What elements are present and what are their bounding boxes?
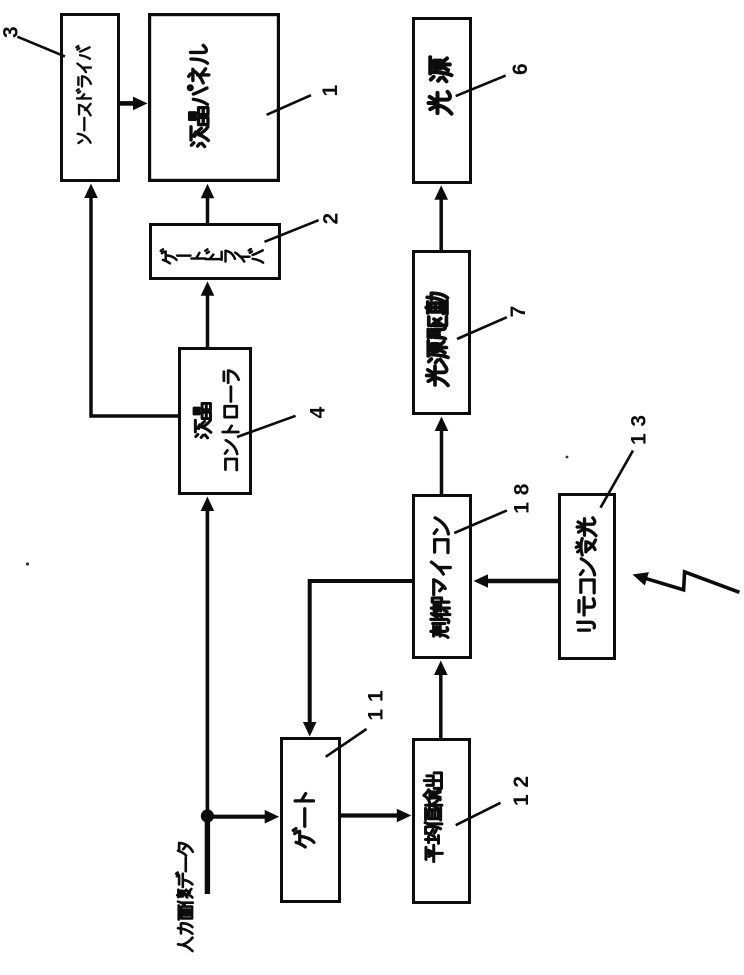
leader line 13 (601, 451, 634, 508)
junction dot (201, 809, 214, 822)
svg-text:1: 1 (511, 502, 534, 514)
text: average detection (424, 773, 442, 862)
leader line 7 (457, 317, 507, 339)
box 12: average value detection (414, 740, 470, 903)
svg-text:8: 8 (511, 483, 534, 495)
leader line 11 (326, 729, 367, 757)
text: light source (429, 57, 452, 113)
box 18: control microcomputer (414, 496, 471, 658)
box 4: LCD controller (180, 349, 251, 494)
leader line 4 (237, 416, 296, 437)
speck artifacts (26, 562, 29, 565)
text: remote receiver (576, 518, 596, 630)
box 13: remote control receiver (560, 495, 615, 659)
box 1: LCD panel (150, 15, 279, 181)
svg-text:2: 2 (510, 776, 533, 788)
wire: box4 -> box2 (206, 289, 210, 347)
wire: input data vertical (205, 816, 210, 894)
text: light source drive (426, 293, 448, 385)
leader line 6 (456, 76, 506, 97)
text: gate (293, 794, 314, 847)
text: source driver (rotated) (76, 46, 91, 143)
wire: box18 -> box7 (440, 423, 444, 494)
lightning: remote signal (647, 572, 740, 592)
wire: feedback box18 -> box11 (310, 581, 412, 729)
leader line 12 (456, 803, 501, 825)
input data label text (176, 843, 193, 951)
box 11: gate (282, 739, 340, 902)
svg-text:7: 7 (507, 306, 530, 318)
svg-text:3: 3 (628, 415, 651, 427)
text: gate driver (rotated, horizontal flow) (161, 249, 263, 263)
wire: box12 -> box18 (439, 668, 443, 738)
leader line 3 (17, 37, 65, 57)
svg-text:1: 1 (365, 690, 388, 702)
leader line 18 (454, 510, 507, 533)
box 2: gate driver (151, 225, 280, 279)
svg-text:3: 3 (0, 26, 22, 38)
svg-text:1: 1 (319, 84, 342, 96)
wire: box2 -> box1 (206, 192, 210, 223)
text: LCD / controller (two columns) (194, 403, 211, 437)
svg-text:2: 2 (319, 213, 342, 225)
wire: box13 -> box18 (481, 579, 558, 584)
svg-text:1: 1 (365, 709, 388, 721)
box 3: source driver (62, 15, 119, 181)
box 7: light source drive (414, 252, 470, 414)
wire: box11 -> box12 (341, 813, 400, 817)
wire: box4 -> box3 (left branch) (91, 189, 178, 416)
wire: box7 -> box6 (439, 192, 443, 250)
wire: box3 -> box1 (120, 101, 136, 106)
svg-text:4: 4 (307, 406, 330, 418)
text: LCD panel (rotated) (188, 45, 208, 146)
leader line 1 (267, 95, 311, 115)
svg-text:1: 1 (628, 433, 651, 445)
svg-text:6: 6 (509, 63, 532, 75)
svg-text:1: 1 (510, 794, 533, 806)
box 6: light source (414, 19, 471, 183)
leader line 2 (265, 220, 319, 242)
text: control micom (431, 518, 450, 638)
wire: junction -> box11 (207, 815, 268, 819)
